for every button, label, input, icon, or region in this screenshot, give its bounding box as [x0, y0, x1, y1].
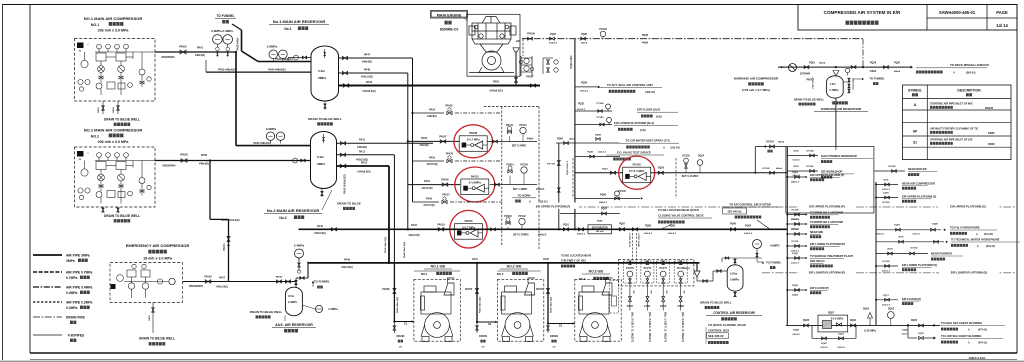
svg-text:#34x3.5(G): #34x3.5(G)	[341, 266, 353, 269]
svg-text:BCM: BCM	[794, 166, 799, 168]
station 1 bypass row PAV32	[413, 112, 445, 114]
svg-text:CONTROL AIR RESERVOIR: CONTROL AIR RESERVOIR	[713, 311, 755, 315]
svg-text:M: M	[79, 159, 81, 161]
svg-text:14/ 14: 14/ 14	[996, 23, 1008, 28]
svg-text:NO.1: NO.1	[91, 23, 99, 27]
svg-text:TO E/R CONTROL AIR SYSTEM: TO E/R CONTROL AIR SYSTEM	[729, 203, 771, 207]
main distribution trunk 3MPa	[299, 228, 788, 230]
aux air reservoir	[285, 287, 302, 316]
svg-text:#48x3.5: #48x3.5	[577, 233, 586, 236]
svg-text:CONTROL BOX: CONTROL BOX	[708, 329, 729, 333]
svg-text:BCM: BCM	[888, 249, 893, 251]
svg-text:#24x3.5(0): #24x3.5(0)	[408, 234, 419, 237]
svg-text:PAV20: PAV20	[465, 219, 473, 223]
bus junction dots	[407, 140, 409, 142]
svg-text:PA43 #34x3.5(G): PA43 #34x3.5(G)	[550, 297, 553, 313]
svg-text:TO HIGH SEA CHEST BLOWING: TO HIGH SEA CHEST BLOWING	[941, 321, 982, 325]
svg-text:#48x4: #48x4	[894, 70, 901, 73]
trunk valves left of dehydrator	[563, 228, 568, 231]
dash line drop to working air line	[862, 39, 864, 67]
svg-text:#27x3.5(0): #27x3.5(0)	[426, 164, 437, 166]
svg-text:TO FUNNEL: TO FUNNEL	[870, 77, 886, 81]
svg-text:206 m/h x 3.0 MPa: 206 m/h x 3.0 MPa	[98, 29, 130, 33]
svg-text:SAWH4000-465-01: SAWH4000-465-01	[939, 10, 976, 15]
svg-text:#32x1.5: #32x1.5	[882, 189, 891, 191]
svg-text:DQ80: DQ80	[932, 224, 938, 226]
svg-text:PAV02: PAV02	[180, 154, 188, 157]
svg-text:PCV32: PCV32	[518, 216, 526, 218]
svg-text:DRAIN: DRAIN	[479, 335, 487, 338]
svg-text:PAV08: PAV08	[469, 131, 477, 135]
svg-text:PQ03 #20x2: PQ03 #20x2	[813, 76, 815, 88]
svg-text:E/R FLOOR (SLF): E/R FLOOR (SLF)	[637, 108, 660, 112]
pipe PA03 diagonal to reservoir	[242, 51, 259, 62]
svg-text:DQ54: DQ54	[792, 294, 798, 297]
svg-text:E/R UPPER PLATFORM (P): E/R UPPER PLATFORM (P)	[810, 173, 844, 177]
legend line type list	[33, 254, 62, 256]
svg-text:DEHYDRATOR: DEHYDRATOR	[592, 226, 608, 229]
svg-text:0.9MPa: 0.9MPa	[730, 278, 739, 282]
generator engine box at 595	[575, 279, 621, 341]
compressor internals	[78, 153, 156, 204]
svg-text:TO AFT. SEAL AIR CONTROL UNIT: TO AFT. SEAL AIR CONTROL UNIT	[607, 83, 653, 87]
svg-text:#42x3.5(G): #42x3.5(G)	[361, 76, 373, 79]
aux reservoir connections	[307, 262, 309, 278]
M/E starting air inlet A	[508, 85, 540, 87]
svg-text:#140x6.5(G): #140x6.5(G)	[362, 90, 376, 93]
svg-text:PA03: PA03	[97, 107, 100, 113]
svg-text:PA43 #34x3.5(G): PA43 #34x3.5(G)	[396, 297, 399, 313]
branch E/R upper platform P	[787, 176, 806, 178]
svg-text:#48x3.5: #48x3.5	[599, 201, 608, 204]
svg-text:DCV44: DCV44	[806, 150, 814, 153]
svg-text:DQ79: DQ79	[894, 225, 900, 227]
svg-text:No.2: No.2	[279, 216, 286, 220]
svg-text:STARTING AIR PIPE INLET OF G/E: STARTING AIR PIPE INLET OF G/E	[930, 138, 973, 142]
svg-text:2.9MPa: 2.9MPa	[267, 45, 278, 49]
svg-text:3-1.0MPa: 3-1.0MPa	[469, 181, 482, 185]
svg-text:#32x1.5: #32x1.5	[837, 347, 845, 349]
svg-text:8S90ME-C9: 8S90ME-C9	[440, 28, 459, 32]
svg-text:DQ28: DQ28	[803, 320, 810, 322]
svg-text:PA46: PA46	[344, 258, 350, 261]
svg-text:PA12: PA12	[359, 150, 366, 153]
working air reservoir right fittings	[843, 81, 849, 83]
svg-text:NEAR AIR COMPRESSOR: NEAR AIR COMPRESSOR	[902, 182, 935, 186]
F.O. valve test device branch	[575, 156, 620, 158]
svg-text:DCV04: DCV04	[766, 141, 774, 144]
svg-text:PQ56: PQ56	[870, 62, 877, 65]
station 2 feed row PAV09	[408, 184, 460, 186]
svg-text:AP: AP	[516, 39, 520, 43]
svg-text:DCV65: DCV65	[882, 261, 890, 263]
svg-text:DCV08: DCV08	[791, 210, 799, 212]
svg-text:DRAIN TO BILGE WELL: DRAIN TO BILGE WELL	[794, 98, 825, 102]
svg-text:#48x4: #48x4	[569, 138, 576, 141]
working air compressor symbol	[789, 64, 797, 72]
secondary vertical x=558.8	[558, 143, 560, 229]
svg-text:DQ04: DQ04	[850, 319, 857, 322]
svg-text:100 m/h: 100 m/h	[596, 231, 605, 233]
top control air dash-dot line	[522, 38, 863, 40]
svg-text:#48x4(G): #48x4(G)	[427, 115, 437, 118]
svg-text:#32x1.5: #32x1.5	[912, 234, 920, 236]
svg-text:DQ87: DQ87	[821, 343, 827, 345]
A-inlet valve manifold	[520, 56, 522, 76]
svg-text:#27x3.5(0): #27x3.5(0)	[423, 205, 434, 207]
svg-text:#34x3.5: #34x3.5	[744, 232, 753, 235]
svg-text:18 m/h x 3.0 MPa: 18 m/h x 3.0 MPa	[143, 257, 173, 261]
svg-text:E/R LOWER PLATFORM (S): E/R LOWER PLATFORM (S)	[902, 263, 937, 267]
branch E/R floor P	[787, 289, 806, 291]
gauge 1.5MPa right of aux reservoir	[315, 305, 322, 312]
svg-text:PQ30: PQ30	[642, 34, 649, 37]
svg-text:PA10 #140x6.5(G): PA10 #140x6.5(G)	[344, 174, 347, 193]
svg-text:DCV47: DCV47	[791, 228, 799, 231]
No.1 main air compressor box	[75, 39, 156, 102]
No.1 reservoir drain	[324, 101, 326, 110]
svg-text:DN25/DN40: DN25/DN40	[162, 56, 176, 59]
svg-text:#27x3.5: #27x3.5	[577, 109, 586, 111]
svg-text:No.1: No.1	[284, 27, 291, 31]
svg-text:DQ02: DQ02	[888, 309, 895, 311]
svg-text:NO.2: NO.2	[91, 134, 99, 138]
svg-text:PQ29: PQ29	[581, 34, 588, 36]
svg-text:DQ05: DQ05	[863, 309, 870, 311]
svg-text:POV121: POV121	[547, 164, 556, 166]
PCV unit PCV74	[641, 261, 654, 283]
compressor internals	[78, 44, 156, 95]
svg-text:DN25: DN25	[988, 142, 995, 146]
svg-text:#34x3.5: #34x3.5	[549, 42, 558, 45]
svg-text:#48x1.5: #48x1.5	[791, 181, 800, 184]
svg-text:#34x1.5: #34x1.5	[876, 233, 884, 236]
svg-text:TO QUICK CLOSING VALVE: TO QUICK CLOSING VALVE	[708, 323, 746, 327]
working air reservoir outlet to distribution	[835, 98, 837, 146]
svg-text:DCV32: DCV32	[682, 156, 690, 158]
svg-text:PQ40: PQ40	[730, 223, 737, 226]
reducer box PCV50	[623, 167, 651, 183]
svg-text:#26: #26	[651, 290, 653, 293]
svg-text:PQ86: PQ86	[597, 221, 603, 223]
svg-text:PAV4?: PAV4?	[683, 267, 690, 270]
svg-text:(?): (?)	[553, 347, 556, 349]
working air main line 0.7MPa	[778, 66, 912, 68]
svg-text:PAV17: PAV17	[442, 194, 450, 197]
control air reservoir outlet down	[734, 291, 736, 297]
svg-text:5.0m: 5.0m	[318, 69, 325, 73]
svg-text:#140x6.5(G): #140x6.5(G)	[489, 90, 503, 93]
svg-text:PQ05 #20x2: PQ05 #20x2	[852, 78, 854, 90]
station 2 instruments POV14 PCV08	[508, 170, 512, 173]
svg-text:PCV77: PCV77	[659, 267, 667, 270]
svg-text:#48x4: #48x4	[642, 42, 649, 45]
control air reservoir riser	[696, 263, 698, 271]
leader diagonal to trunk	[660, 225, 672, 230]
svg-text:#32x1.5: #32x1.5	[792, 334, 800, 336]
svg-text:PA06: PA06	[201, 154, 208, 157]
svg-text:(A,B): (A,B)	[656, 116, 662, 119]
svg-text:DQ57: DQ57	[918, 333, 924, 335]
svg-text:PQ32 #48x4: PQ32 #48x4	[570, 55, 573, 69]
branch near air compressor	[876, 184, 898, 186]
svg-text:PAV03: PAV03	[204, 276, 212, 279]
svg-text:TO LOW SEA CHEST BLOWING: TO LOW SEA CHEST BLOWING	[941, 334, 981, 338]
svg-text:#32x1.3: #32x1.3	[598, 152, 607, 154]
svg-text:PQ6?: PQ6?	[602, 169, 608, 171]
svg-text:SET 0.7MPC: SET 0.7MPC	[512, 145, 527, 148]
station 3 instruments POV02 PCV32	[506, 222, 510, 225]
station 1 right row	[487, 140, 537, 142]
svg-text:PA43 #34x3.5(G): PA43 #34x3.5(G)	[479, 297, 482, 313]
svg-text:PAV10: PAV10	[446, 153, 454, 156]
pressure reducing valve PAV12 highlight circle	[455, 167, 495, 202]
svg-text:3-0.7 MPa: 3-0.7 MPa	[467, 137, 480, 141]
svg-text:(A,B): (A,B)	[640, 129, 646, 132]
svg-text:DRAIN TO BILGE WELL: DRAIN TO BILGE WELL	[700, 301, 732, 305]
vertical bus to G/E trunk	[388, 166, 390, 263]
svg-text:DRAIN TO BILGE WELL: DRAIN TO BILGE WELL	[104, 118, 140, 122]
stations dashed enclosure	[501, 107, 503, 246]
svg-text:#32x1.5: #32x1.5	[792, 160, 800, 162]
svg-text:NEAR PURIFIER: NEAR PURIFIER	[931, 252, 952, 256]
No.2 reservoir outlet pipes	[337, 142, 434, 144]
svg-text:PA50 #34x3.5(G): PA50 #34x3.5(G)	[384, 237, 387, 253]
svg-text:#34x3.5: #34x3.5	[536, 188, 545, 191]
No.1 compressor drain stubs	[102, 101, 104, 114]
svg-text:#140x6.5(G): #140x6.5(G)	[357, 171, 371, 174]
emergency air riser to system	[209, 161, 211, 220]
svg-text:DRAIN TO BILGE: DRAIN TO BILGE	[337, 202, 361, 206]
svg-text:E/R UPPER PLATFORM (P): E/R UPPER PLATFORM (P)	[809, 205, 845, 209]
svg-text:CLOSING VALVE CONTROL DECK: CLOSING VALVE CONTROL DECK	[658, 214, 704, 218]
svg-text:0.5m: 0.5m	[288, 294, 295, 298]
svg-text:TO FUNNEL: TO FUNNEL	[216, 14, 234, 18]
svg-text:TO BRMS NO.1 AIR PUMP: TO BRMS NO.1 AIR PUMP	[810, 211, 843, 215]
branch E/R lower platform SLP	[575, 124, 612, 126]
svg-text:SET 0.44 MDC: SET 0.44 MDC	[682, 175, 699, 178]
svg-text:(562-01): (562-01)	[966, 72, 976, 75]
svg-text:NO.2 MAIN AIR COMPRESSOR: NO.2 MAIN AIR COMPRESSOR	[84, 128, 143, 133]
svg-text:206 m/h x 3.0 MPa: 206 m/h x 3.0 MPa	[98, 140, 130, 144]
svg-text:SET 0.77MPC: SET 0.77MPC	[513, 233, 529, 236]
branch E/R lower platform P	[787, 245, 806, 247]
fittings right of engine	[547, 60, 550, 64]
svg-text:PCV50: PCV50	[633, 163, 642, 167]
svg-text:#34x3.5(G): #34x3.5(G)	[216, 286, 228, 289]
svg-text:PA09 #34x3.5(G): PA09 #34x3.5(G)	[221, 219, 240, 222]
pipe PA02 lower inlet	[206, 71, 311, 73]
svg-text:A: A	[515, 50, 517, 54]
svg-text:0.25m: 0.25m	[730, 272, 738, 276]
dehydrator	[588, 225, 612, 234]
air horn branch left	[762, 146, 786, 148]
svg-text:DQ50: DQ50	[658, 168, 665, 170]
svg-text:S1: S1	[404, 322, 408, 326]
svg-text:PA20: PA20	[411, 224, 417, 227]
svg-text:STARTING AIR PIPE INLET OF M/E: STARTING AIR PIPE INLET OF M/E	[930, 102, 973, 106]
svg-text:PAV55: PAV55	[465, 288, 473, 291]
svg-text:#48x4: #48x4	[581, 42, 588, 45]
funnel riser pipe	[232, 24, 242, 30]
emergency compressor drain	[152, 303, 154, 334]
No.2 compressor drain stubs	[102, 207, 104, 212]
branch to technical water hydrophore	[876, 241, 944, 243]
svg-text:COMPRESSED AIR SYSTEM IN E/R: COMPRESSED AIR SYSTEM IN E/R	[824, 10, 901, 15]
svg-text:A: A	[914, 103, 917, 107]
svg-text:ELECTRONICS WORKSHOP: ELECTRONICS WORKSHOP	[821, 154, 857, 158]
svg-text:DQ77: DQ77	[883, 295, 889, 297]
emergency compressor discharge pipe PA07	[183, 281, 297, 283]
No.1 main air reservoir vessel	[311, 46, 339, 101]
svg-text:PQ01: PQ01	[809, 63, 816, 65]
svg-text:PCV88: PCV88	[597, 103, 605, 105]
station 1 feed row PAV08	[408, 140, 460, 142]
svg-text:PA04 #48x4(G): PA04 #48x4(G)	[268, 69, 285, 72]
svg-text:PA42: PA42	[543, 258, 549, 261]
riser DCV04/DCV05 junction	[754, 147, 756, 173]
svg-text:PAV56: PAV56	[536, 288, 544, 291]
G/E starting air drop PAV56	[547, 263, 549, 324]
sea chest blowing line	[786, 324, 940, 326]
svg-text:0.7MPa: 0.7MPa	[830, 88, 839, 92]
svg-text:E/R LOWER PLATFORM (P): E/R LOWER PLATFORM (P)	[809, 271, 846, 275]
svg-text:AIR PIPE 0.7MPa: AIR PIPE 0.7MPa	[66, 271, 93, 275]
svg-text:BCN: BCN	[884, 180, 889, 182]
svg-text:PQ66: PQ66	[600, 195, 607, 197]
svg-text:AIR PIPE 3MPa: AIR PIPE 3MPa	[66, 254, 90, 258]
svg-text:#44x3.5: #44x3.5	[538, 233, 547, 236]
svg-text:0.9MPC: 0.9MPC	[770, 244, 780, 248]
bypass line sea chest	[811, 325, 813, 338]
svg-text:PQ62 #43x1.5: PQ62 #43x1.5	[566, 160, 569, 175]
svg-text:PAV19: PAV19	[437, 223, 445, 226]
svg-text:PQ48: PQ48	[587, 151, 593, 154]
svg-text:E/R LOWER PLATFORM (S): E/R LOWER PLATFORM (S)	[951, 271, 988, 275]
svg-text:DRAIN: DRAIN	[396, 335, 404, 338]
svg-text:PDV06: PDV06	[527, 33, 535, 36]
reducer box PAV12	[461, 179, 489, 195]
svg-text:1.5MPa: 1.5MPa	[328, 307, 338, 311]
svg-text:DQ88: DQ88	[793, 330, 799, 332]
svg-text:DCV63: DCV63	[910, 248, 918, 250]
leader line to No.2 reservoir	[322, 190, 332, 210]
branch PQ47	[560, 213, 620, 215]
svg-text:PA28: PA28	[421, 137, 427, 140]
branch PQ66 PCV33	[575, 197, 640, 199]
svg-text:#48x4: #48x4	[819, 62, 826, 65]
trunk valves right of dehydrator	[619, 228, 624, 231]
pressure reducing valve PAV08 highlight circle	[454, 125, 493, 158]
svg-text:(No. 1 G/E F. O. INLET): (No. 1 G/E F. O. INLET)	[664, 312, 668, 342]
air filter PAV41	[694, 271, 700, 277]
main engine label	[431, 11, 468, 19]
svg-text:2.4MPa: 2.4MPa	[294, 244, 305, 248]
PCV50 right line to working air trunk	[651, 172, 788, 174]
svg-text:PA50: PA50	[493, 81, 500, 84]
svg-text:2.4MPa: 2.4MPa	[288, 300, 297, 304]
svg-text:#48x4(G): #48x4(G)	[199, 163, 209, 166]
reducer box PAV20	[455, 224, 483, 240]
svg-text:E/R WORKSHOP: E/R WORKSHOP	[821, 170, 843, 174]
pipe PA01 No.1 compressor discharge	[155, 51, 236, 53]
svg-text:#32x1.5: #32x1.5	[791, 263, 800, 265]
svg-text:E/R LOWER PLATFORM (SLA): E/R LOWER PLATFORM (SLA)	[614, 121, 654, 125]
svg-text:PA08 #48x4: PA08 #48x4	[237, 37, 240, 50]
station 3 feed row PAV19	[438, 228, 444, 231]
svg-text:PAV12: PAV12	[471, 174, 479, 178]
No.2 reservoir inlet fittings	[293, 158, 298, 163]
branch to sewage treatment plant	[787, 257, 806, 259]
svg-text:3MPa: 3MPa	[66, 259, 75, 263]
svg-text:S1: S1	[488, 322, 492, 326]
svg-text:BCM: BCM	[794, 151, 799, 153]
svg-text:PQ88: PQ88	[645, 226, 652, 228]
svg-text:SYMBOL: SYMBOL	[908, 89, 922, 93]
svg-text:(531-01): (531-01)	[986, 245, 995, 248]
svg-text:TO BE LOCATED NEAR: TO BE LOCATED NEAR	[561, 254, 591, 258]
svg-text:F.W.PIPES: F.W.PIPES	[68, 334, 85, 338]
svg-text:DRAIN TO BILGE WELL: DRAIN TO BILGE WELL	[104, 214, 140, 218]
svg-text:DCV52: DCV52	[791, 241, 799, 243]
svg-text:E/R UPPER PLATFORM (S): E/R UPPER PLATFORM (S)	[902, 195, 936, 199]
branch near purifier	[876, 253, 928, 255]
svg-text:PQ60: PQ60	[557, 139, 564, 141]
svg-text:DN125: DN125	[985, 106, 994, 110]
PCV50 reducing station feed line	[575, 172, 628, 174]
pipe PA49 main starting air to M/E	[339, 85, 509, 87]
svg-text:F.O. VALVE TEST DEVICE: F.O. VALVE TEST DEVICE	[617, 151, 651, 155]
svg-text:2.9MPa 2.4MPa: 2.9MPa 2.4MPa	[211, 29, 233, 33]
svg-text:G/T/DN40: G/T/DN40	[800, 73, 811, 76]
svg-text:PA47: PA47	[364, 54, 371, 57]
svg-text:#26: #26	[667, 290, 669, 293]
svg-text:NEAR BOILER: NEAR BOILER	[908, 167, 927, 171]
svg-text:DESCRIPTION: DESCRIPTION	[957, 89, 981, 93]
svg-text:DRAIN PIPE: DRAIN PIPE	[66, 316, 86, 320]
svg-text:DN25: DN25	[988, 131, 995, 135]
pressure reducing valve PCV50 highlight circle	[619, 156, 655, 189]
gauge DQ02	[887, 312, 894, 319]
svg-text:PA13: PA13	[361, 162, 368, 165]
near boiler branch	[874, 170, 905, 172]
svg-text:#32x1.5: #32x1.5	[820, 347, 828, 349]
svg-text:PA31: PA31	[424, 180, 430, 183]
control air reservoir top fittings	[734, 258, 736, 265]
svg-text:TO TECHNICAL WATER HYDROPHORE: TO TECHNICAL WATER HYDROPHORE	[951, 238, 1000, 242]
svg-text:5.0m: 5.0m	[317, 155, 324, 159]
svg-text:TO DECK MISCELLANEOUS: TO DECK MISCELLANEOUS	[950, 63, 989, 67]
svg-text:NO.1: NO.1	[421, 272, 428, 276]
svg-text:AREA:0.32m: AREA:0.32m	[969, 356, 986, 360]
svg-text:(475-01): (475-01)	[978, 342, 987, 345]
PCV unit PCV77	[657, 261, 670, 283]
svg-text:DN25/DN40: DN25/DN40	[163, 164, 177, 167]
svg-text:E/R FLOOR (P): E/R FLOOR (P)	[810, 286, 829, 290]
main engine drawing	[469, 17, 516, 73]
svg-text:(462-04): (462-04)	[645, 91, 655, 94]
svg-text:PQ87: PQ87	[619, 224, 626, 226]
svg-text:TO FUNNEL: TO FUNNEL	[314, 280, 330, 284]
svg-text:NO.3 G/E: NO.3 G/E	[589, 270, 604, 274]
control air reservoir gauge	[753, 240, 762, 249]
svg-text:PA02 #48x4(G): PA02 #48x4(G)	[218, 69, 235, 72]
svg-text:WORKING AIR RESERVOIR: WORKING AIR RESERVOIR	[821, 107, 862, 111]
svg-text:PCV74: PCV74	[644, 267, 652, 270]
svg-text:DQ24: DQ24	[698, 155, 705, 158]
svg-text:MAIN ENGINE: MAIN ENGINE	[437, 13, 462, 17]
branch to BRMS No.1 air pump	[787, 214, 806, 216]
